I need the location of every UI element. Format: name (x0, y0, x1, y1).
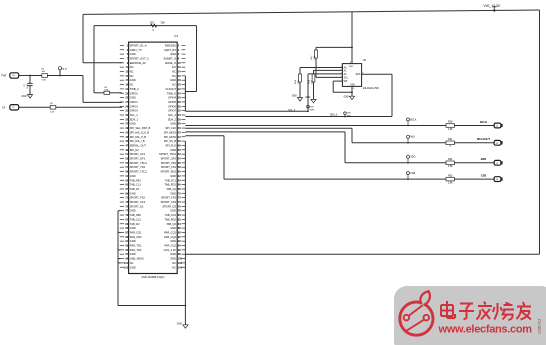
resistor R27 2.2K pullup SCL (315, 47, 317, 50)
svg-text:GPIO0: GPIO0 (130, 91, 138, 95)
watermark chinese text 电子发烧友 (441, 301, 531, 320)
svg-text:102: 102 (178, 262, 183, 265)
resistor R17 DNI 0-ohm (top) (151, 24, 157, 27)
resistor R30 1.5K (446, 124, 454, 128)
svg-text:GND: GND (170, 174, 176, 178)
svg-text:10: 10 (496, 143, 498, 145)
svg-text:SPORT_FS3: SPORT_FS3 (161, 196, 177, 200)
svg-text:GND: GND (130, 239, 136, 243)
connector MCLKOUT (500, 142, 502, 144)
test point CSB (407, 172, 410, 175)
svg-text:SPI_MISO: SPI_MISO (164, 130, 176, 134)
svg-text:10: 10 (496, 163, 498, 165)
svg-text:SDA_1: SDA_1 (130, 117, 139, 121)
test point BCLK (407, 118, 410, 121)
wire U2 A0 (300, 67, 342, 69)
svg-text:SPORT_TSU1: SPORT_TSU1 (130, 161, 148, 165)
svg-text:2.2K: 2.2K (312, 79, 314, 84)
svg-text:ALM: ALM (62, 68, 67, 71)
svg-text:GND: GND (130, 122, 136, 126)
watermark panel (394, 286, 546, 345)
svg-text:WAKE_O: WAKE_O (165, 61, 176, 65)
svg-text:CSB: CSB (481, 174, 487, 178)
svg-text:TWB_O: TWB_O (167, 91, 176, 95)
svg-text:U2: U2 (363, 58, 367, 62)
wire bottom loop (118, 305, 185, 307)
svg-text:GND: GND (130, 252, 136, 256)
wire U2 A2 (308, 73, 342, 75)
wire CSB (185, 135, 224, 137)
svg-text:MLK: MLK (410, 137, 415, 139)
svg-text:GPIO7: GPIO7 (168, 109, 176, 113)
svg-text:8: 8 (350, 62, 351, 64)
svg-text:GND: GND (130, 209, 136, 213)
svg-text:103: 103 (124, 266, 129, 269)
svg-text:GND: GND (130, 265, 136, 269)
svg-text:SPI_MS_I_B: SPI_MS_I_B (130, 139, 145, 143)
svg-text:SPI_CLK: SPI_CLK (165, 126, 176, 130)
svg-text:TAB_Q1: TAB_Q1 (166, 187, 176, 191)
svg-text:NC: NC (172, 83, 176, 87)
svg-text:TAB_D2: TAB_D2 (130, 222, 140, 226)
wire SDA_0 (185, 116, 392, 118)
connector BCLK (500, 124, 502, 126)
svg-text:GPIO2: GPIO2 (130, 104, 138, 108)
svg-text:SPI_FLG: SPI_FLG (165, 143, 176, 147)
wire DNI loop right (196, 26, 198, 92)
svg-text:TAB_CL1: TAB_CL1 (130, 183, 142, 187)
svg-text:TAB_CL2: TAB_CL2 (130, 217, 142, 221)
wire TWT (19, 75, 83, 77)
svg-text:USB_VBUS: USB_VBUS (130, 257, 144, 261)
svg-text:1.0K: 1.0K (42, 80, 47, 82)
svg-text:GND: GND (170, 239, 176, 243)
wire VIO top rail (83, 10, 540, 14)
svg-text:1.5K: 1.5K (448, 128, 453, 131)
svg-text:PAR_CQ2: PAR_CQ2 (164, 235, 176, 239)
svg-text:SPORT_OF1: SPORT_OF1 (130, 157, 146, 161)
wire CF (19, 106, 122, 108)
svg-text:VIO_+3.3V: VIO_+3.3V (484, 4, 501, 8)
svg-text:SPI_SEL_DSP_B: SPI_SEL_DSP_B (130, 126, 151, 130)
svg-text:12SD-613: 12SD-613 (538, 319, 542, 334)
svg-text:UART_RX: UART_RX (164, 48, 176, 52)
svg-text:GND: GND (130, 226, 136, 230)
svg-text:GND: GND (305, 97, 310, 99)
svg-text:WP: WP (344, 81, 348, 83)
svg-text:ASP-134488-01(21): ASP-134488-01(21) (141, 275, 164, 279)
svg-text:SCL_0: SCL_0 (288, 110, 296, 112)
ground bottom (183, 325, 188, 328)
ground U2 (349, 96, 354, 99)
capacitor C1 (29, 76, 31, 84)
svg-text:NC: NC (172, 70, 176, 74)
svg-text:VSS: VSS (350, 84, 355, 86)
svg-text:SPORT_D2: SPORT_D2 (130, 204, 144, 208)
svg-text:SPORT_TSC1: SPORT_TSC1 (130, 170, 148, 174)
wire BSD (185, 131, 345, 133)
svg-text:GND: GND (170, 122, 176, 126)
svg-text:SPI_MOSI: SPI_MOSI (164, 135, 177, 139)
svg-text:www.elecfans.com: www.elecfans.com (438, 324, 533, 336)
svg-text:GND: GND (344, 97, 349, 99)
svg-text:CF: CF (2, 105, 6, 109)
svg-text:24LC02A-I/SN: 24LC02A-I/SN (363, 87, 379, 90)
svg-text:SUBMT_O: SUBMT_O (163, 56, 176, 60)
resistor R28 2.2K pulldown A1 (313, 70, 315, 74)
svg-text:SPORT_FS1: SPORT_FS1 (161, 165, 177, 169)
svg-text:101: 101 (124, 262, 129, 265)
svg-text:NC: NC (130, 74, 134, 78)
svg-text:BCLK: BCLK (410, 119, 416, 121)
svg-text:VIOs_3.3V: VIOs_3.3V (163, 248, 176, 252)
svg-text:NC: NC (172, 261, 176, 265)
svg-text:RMODE1: RMODE1 (165, 43, 177, 47)
svg-text:TAB_RD1: TAB_RD1 (165, 183, 177, 187)
wire BCLK (185, 125, 494, 127)
P1 pins (120, 43, 186, 47)
svg-text:100: 100 (178, 258, 183, 261)
svg-text:SDA_0: SDA_0 (330, 114, 338, 117)
wire DNI loop left (93, 26, 95, 93)
svg-text:SPORT_OF2: SPORT_OF2 (161, 157, 177, 161)
resistor R26 2.2K pulldown A0 (299, 68, 301, 75)
ground R28 (311, 99, 316, 102)
svg-text:SPI_MS_O_B: SPI_MS_O_B (130, 135, 146, 139)
svg-text:DNI: DNI (105, 89, 109, 91)
svg-text:CSB: CSB (410, 173, 415, 175)
svg-text:NC: NC (130, 70, 134, 74)
resistor R32 1.5K (446, 161, 454, 165)
svg-text:GND: GND (170, 209, 176, 213)
svg-text:SPORT_TD1: SPORT_TD1 (130, 165, 146, 169)
svg-text:TAB_FC2: TAB_FC2 (165, 213, 177, 217)
svg-text:PAR_CQ1: PAR_CQ1 (164, 230, 176, 234)
connector BSD (500, 162, 502, 164)
test point TP6 SCL_0 (307, 105, 310, 108)
wire DNI loop top (94, 25, 197, 27)
wire VIO right side (539, 10, 541, 254)
svg-text:SCL_2: SCL_2 (168, 113, 176, 117)
svg-text:GPIO6: GPIO6 (168, 104, 176, 108)
test point SDO (407, 155, 410, 158)
svg-text:10: 10 (496, 179, 498, 181)
svg-text:GPIO1: GPIO1 (130, 100, 138, 104)
svg-text:SPORT_TSC2: SPORT_TSC2 (159, 152, 177, 156)
svg-text:SCL_1: SCL_1 (130, 113, 138, 117)
svg-text:5: 5 (362, 72, 363, 74)
svg-text:SPORT_CK3: SPORT_CK3 (161, 200, 177, 204)
svg-text:IO1: IO1 (172, 65, 177, 69)
svg-text:TAB_FB1: TAB_FB1 (130, 178, 142, 182)
svg-text:GND: GND (177, 323, 182, 325)
svg-text:GND: GND (130, 174, 136, 178)
svg-text:SERIAL_OUT: SERIAL_OUT (130, 143, 147, 147)
wire U2 A1 (314, 69, 343, 71)
svg-text:SDO: SDO (410, 157, 415, 159)
svg-text:SPI_D2: SPI_D2 (130, 148, 139, 152)
svg-text:GND: GND (170, 257, 176, 261)
svg-text:MCLKOUT: MCLKOUT (477, 137, 490, 141)
svg-text:EEPROM_A0: EEPROM_A0 (130, 61, 146, 65)
wire VIO bottom return (185, 253, 539, 255)
test point ALM (58, 67, 61, 70)
svg-text:GND: GND (130, 191, 136, 195)
svg-text:SDA: SDA (356, 73, 361, 76)
wire U2 SCL (316, 76, 342, 78)
svg-text:DNI: DNI (161, 22, 165, 24)
wire MCLKOUT (185, 127, 352, 129)
svg-text:4: 4 (353, 88, 354, 90)
svg-text:GND: GND (170, 78, 176, 82)
svg-text:TWB_C: TWB_C (130, 87, 139, 91)
svg-text:2.2K: 2.2K (298, 79, 300, 84)
svg-text:GND: GND (130, 52, 136, 56)
svg-text:SPORT_CK2: SPORT_CK2 (130, 200, 146, 204)
power flag VIO_+3.3V (493, 7, 495, 11)
svg-text:SPORT_TR2: SPORT_TR2 (161, 161, 177, 165)
svg-text:TAB_FB2: TAB_FB2 (130, 213, 142, 217)
svg-text:GND: GND (292, 95, 297, 97)
svg-text:TWT: TWT (1, 74, 7, 78)
wire SCL_0 (184, 76, 186, 111)
svg-text:104: 104 (178, 266, 183, 269)
svg-text:WHT: WHT (310, 110, 315, 112)
resistor R2 100 (42, 74, 48, 78)
svg-text:SPORT_CK1: SPORT_CK1 (130, 152, 146, 156)
svg-text:NC: NC (130, 261, 134, 265)
test point MLK (407, 135, 410, 138)
svg-text:UART_TX: UART_TX (130, 48, 142, 52)
svg-text:P1: P1 (175, 34, 179, 38)
svg-text:GND: GND (130, 78, 136, 82)
svg-text:TAB_FC1: TAB_FC1 (165, 178, 177, 182)
svg-text:GND: GND (170, 148, 176, 152)
svg-text:GND: GND (170, 252, 176, 256)
svg-text:PAR_CD1: PAR_CD1 (130, 230, 142, 234)
svg-text:10uF: 10uF (27, 83, 29, 88)
svg-text:GND: GND (130, 96, 136, 100)
wire P1 right GND/VIO bus (184, 141, 186, 325)
svg-text:PAR_TQ1: PAR_TQ1 (164, 244, 176, 248)
wire U2 VSS to ground (351, 86, 353, 96)
connector P1 body (129, 42, 178, 273)
svg-text:GND: GND (22, 96, 27, 98)
eeprom U2 body (342, 64, 361, 87)
svg-text:PAR_TD2: PAR_TD2 (130, 248, 142, 252)
svg-text:CLKOUT: CLKOUT (165, 87, 176, 91)
resistor R31 0 (446, 141, 454, 145)
svg-text:1.0K: 1.0K (50, 111, 55, 113)
svg-text:SPORT_RD1: SPORT_RD1 (160, 170, 176, 174)
svg-text:GND: GND (170, 191, 176, 195)
svg-text:TAB_RD2: TAB_RD2 (165, 217, 177, 221)
svg-text:1.5K: 1.5K (448, 165, 453, 168)
watermark logo icon (400, 291, 433, 335)
svg-text:NC: NC (172, 74, 176, 78)
svg-text:1.5K: 1.5K (448, 182, 453, 185)
svg-text:SCL: SCL (344, 77, 349, 79)
connector CSB (500, 178, 502, 180)
svg-text:GPIO3: GPIO3 (130, 109, 138, 113)
svg-text:TAB_D1: TAB_D1 (130, 187, 140, 191)
svg-text:SPORT_D3: SPORT_D3 (162, 204, 176, 208)
wire pullup rail (316, 46, 352, 48)
svg-text:R33: R33 (448, 174, 453, 177)
svg-text:SPORT_OUT_0: SPORT_OUT_0 (130, 56, 149, 60)
svg-text:SPORT_D1_A: SPORT_D1_A (130, 43, 147, 47)
resistor R1 DNI series (left) (104, 91, 110, 94)
svg-text:GPIO5: GPIO5 (168, 100, 176, 104)
svg-text:R31: R31 (448, 138, 453, 141)
svg-text:PAR_CD2: PAR_CD2 (130, 235, 142, 239)
wire U2 WP loop (333, 80, 342, 82)
svg-text:PAR_TD1: PAR_TD1 (130, 244, 142, 248)
svg-text:NC: NC (130, 65, 134, 69)
svg-text:GND: GND (170, 226, 176, 230)
svg-text:NC: NC (130, 83, 134, 87)
svg-text:SPI_SS_B: SPI_SS_B (164, 139, 177, 143)
svg-text:BCLK: BCLK (480, 120, 487, 124)
ground R26 (297, 98, 302, 101)
svg-text:GPIO4: GPIO4 (168, 96, 176, 100)
svg-text:VDD: VDD (349, 66, 354, 68)
svg-text:SPI_MS_CLK_B: SPI_MS_CLK_B (130, 130, 149, 134)
svg-text:10: 10 (496, 126, 498, 128)
resistor R33 1.5K (446, 177, 454, 181)
svg-text:R17: R17 (150, 22, 155, 24)
resistor R3 1.0K (50, 106, 56, 110)
wire P1 left GND bus (117, 211, 119, 306)
test point TP5 SDA_0 (344, 116, 346, 118)
wire VIO left drop to P1 (82, 14, 84, 62)
svg-text:R32: R32 (448, 158, 453, 161)
svg-text:SDA_2: SDA_2 (168, 117, 177, 121)
svg-text:BSD: BSD (481, 157, 487, 161)
svg-text:2.2K: 2.2K (314, 55, 316, 60)
wire U2 VDD (351, 12, 353, 64)
ground for C1 (27, 95, 32, 98)
svg-text:TAB_Q2: TAB_Q2 (166, 222, 176, 226)
svg-text:R30: R30 (448, 121, 453, 124)
svg-text:GND: GND (170, 52, 176, 56)
svg-text:SPORT_FS2: SPORT_FS2 (130, 196, 146, 200)
svg-text:NC: NC (172, 265, 176, 269)
